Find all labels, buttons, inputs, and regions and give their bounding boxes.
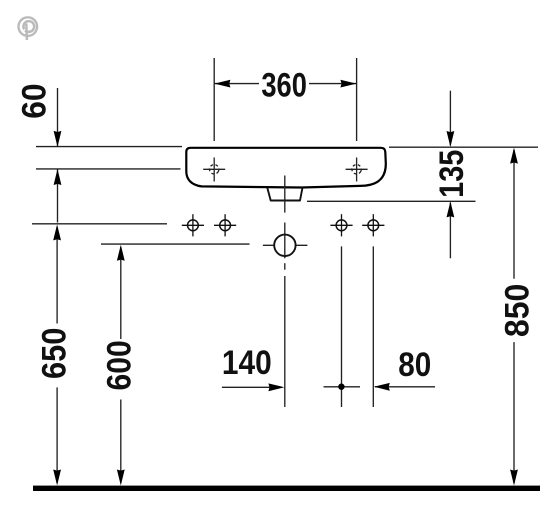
arrow down to floor (117, 470, 125, 486)
drain outlet below basin (267, 188, 302, 201)
svg-text:140: 140 (222, 344, 272, 382)
extension line left (213, 58, 215, 141)
arrow down to floor (510, 470, 518, 486)
long centerline to 140 arrow (284, 276, 286, 407)
svg-text:850: 850 (499, 284, 537, 337)
fixing holes right pair (330, 214, 384, 236)
arrow down to rim line (447, 131, 455, 147)
svg-text:60: 60 (15, 83, 53, 118)
siphon circle (274, 235, 295, 256)
arrow right to centerline (268, 383, 284, 391)
arrow up to 60-lower line (54, 169, 62, 185)
rim-top reference line right segment (389, 146, 538, 148)
centerline through drain (284, 176, 286, 213)
svg-text:80: 80 (398, 346, 431, 384)
arrow up to rim line (510, 148, 518, 164)
rim-top reference line left segment (36, 146, 182, 148)
tap hole marker right (346, 158, 368, 182)
arrow up to 135 bottom line (447, 201, 455, 217)
arrow down to rim line (54, 131, 62, 147)
arrow down to floor (53, 470, 61, 486)
extension line from right hole 2 (372, 246, 374, 407)
arrow up to 600 line (117, 245, 125, 261)
extension line right (356, 58, 358, 141)
dim line right part (309, 83, 357, 85)
arrow left of 360 (214, 80, 230, 88)
arrow right of 360 (340, 80, 356, 88)
svg-text:360: 360 (261, 66, 307, 104)
horizontal line through siphon circle (263, 244, 308, 246)
80 arrow shaft (375, 386, 435, 388)
pinterest badge (19, 17, 38, 40)
dim line left part (214, 83, 259, 85)
short line through dot (324, 386, 361, 388)
short dash below circle (284, 263, 286, 270)
arrow left to extension line (374, 383, 390, 391)
svg-text:650: 650 (36, 328, 74, 379)
arrow up to fixing-hole line (53, 224, 61, 240)
135 bottom reference line (307, 200, 476, 202)
extension line from right hole 1 (341, 246, 343, 407)
svg-text:600: 600 (101, 340, 139, 390)
svg-text:135: 135 (433, 150, 471, 198)
140 arrow shaft (222, 386, 282, 388)
vertical line inside circle (284, 235, 286, 256)
60-lower reference line (36, 168, 181, 170)
fixing-hole level reference line (650) (32, 223, 167, 225)
600 reference line (101, 243, 250, 245)
dot terminator (338, 384, 344, 390)
centerline through circle (284, 223, 286, 259)
